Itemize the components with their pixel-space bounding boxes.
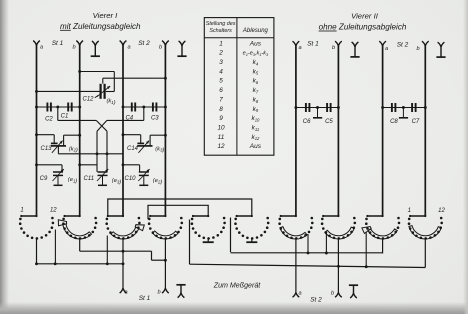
svg-text:C1: C1 — [61, 114, 69, 120]
svg-text:Aus: Aus — [249, 143, 262, 150]
svg-text:Ablesung: Ablesung — [242, 28, 269, 34]
svg-text:b: b — [331, 291, 334, 297]
svg-text:k9: k9 — [253, 106, 259, 113]
svg-text:(e1): (e1) — [68, 177, 78, 184]
svg-text:(e3): (e3) — [112, 178, 122, 185]
svg-text:Vierer II: Vierer II — [351, 12, 379, 21]
svg-text:k12: k12 — [251, 134, 260, 141]
svg-text:C12: C12 — [82, 97, 94, 103]
svg-text:b: b — [332, 45, 335, 51]
svg-text:k11: k11 — [252, 124, 260, 131]
svg-text:k7: k7 — [253, 87, 259, 94]
svg-text:1: 1 — [20, 208, 23, 214]
svg-text:k6: k6 — [253, 78, 259, 85]
svg-text:a: a — [127, 45, 130, 51]
svg-text:a: a — [385, 46, 388, 52]
svg-text:(k3): (k3) — [155, 146, 164, 153]
svg-text:(k2): (k2) — [69, 146, 78, 153]
svg-text:mit Zuleitungsabgleich: mit Zuleitungsabgleich — [60, 22, 141, 31]
svg-text:St 1: St 1 — [139, 295, 151, 302]
svg-text:1: 1 — [408, 208, 411, 214]
svg-text:6: 6 — [219, 87, 223, 94]
svg-text:a: a — [298, 45, 301, 51]
svg-text:3: 3 — [219, 59, 223, 66]
svg-text:4: 4 — [219, 68, 223, 75]
svg-text:k5: k5 — [253, 68, 259, 75]
svg-text:k4: k4 — [253, 59, 259, 66]
svg-text:C14: C14 — [127, 146, 139, 152]
svg-text:8: 8 — [219, 106, 223, 113]
svg-text:C2: C2 — [45, 117, 53, 123]
svg-text:Vierer I: Vierer I — [93, 11, 119, 20]
svg-text:1: 1 — [219, 40, 223, 47]
svg-text:7: 7 — [219, 96, 223, 103]
svg-text:Schalters: Schalters — [209, 28, 232, 34]
svg-text:12: 12 — [50, 208, 57, 214]
svg-text:5: 5 — [219, 78, 223, 85]
svg-text:St 1: St 1 — [307, 41, 319, 48]
svg-text:e1-e3,k1-k3: e1-e3,k1-k3 — [243, 51, 269, 57]
svg-text:St 2: St 2 — [397, 41, 409, 48]
svg-text:12: 12 — [438, 208, 445, 214]
svg-text:11: 11 — [218, 134, 225, 141]
svg-text:C4: C4 — [125, 116, 133, 122]
svg-text:(e2): (e2) — [153, 178, 163, 185]
svg-text:a: a — [124, 290, 127, 296]
svg-text:9: 9 — [219, 115, 223, 122]
svg-text:C13: C13 — [40, 146, 52, 152]
svg-text:12: 12 — [217, 143, 225, 150]
svg-text:C11: C11 — [84, 176, 95, 182]
svg-text:10: 10 — [217, 124, 225, 131]
svg-text:b: b — [416, 46, 419, 52]
svg-text:C5: C5 — [325, 119, 333, 125]
svg-text:St 2: St 2 — [138, 40, 150, 47]
svg-text:Zum Meßgerät: Zum Meßgerät — [213, 282, 262, 290]
svg-text:C6: C6 — [303, 119, 311, 125]
svg-text:a: a — [40, 45, 43, 51]
svg-text:b: b — [157, 290, 160, 296]
svg-text:Aus: Aus — [249, 40, 262, 47]
svg-text:C8: C8 — [390, 119, 398, 125]
svg-text:b: b — [159, 45, 162, 51]
svg-text:2: 2 — [218, 50, 223, 57]
svg-text:C3: C3 — [151, 116, 159, 122]
svg-text:ohne Zuleitungsabgleich: ohne Zuleitungsabgleich — [319, 23, 407, 32]
svg-text:C9: C9 — [40, 176, 48, 182]
svg-text:C10: C10 — [124, 176, 136, 182]
svg-text:Stellung des: Stellung des — [206, 21, 236, 27]
svg-text:k8: k8 — [253, 96, 259, 103]
svg-text:k10: k10 — [251, 115, 260, 122]
svg-text:(k1): (k1) — [106, 99, 115, 106]
svg-text:a: a — [298, 291, 301, 297]
svg-text:St 1: St 1 — [52, 40, 64, 47]
svg-text:C7: C7 — [412, 119, 420, 125]
svg-text:b: b — [72, 45, 75, 51]
